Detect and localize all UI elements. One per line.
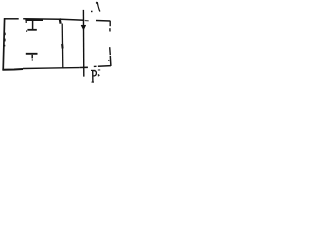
label P top serif bbox=[91, 69, 95, 71]
enclosure box top edge dash 1 bbox=[4, 18, 19, 20]
enclosure box top edge faint dash bbox=[85, 20, 89, 22]
electrode symbol 2 dot bbox=[32, 59, 33, 60]
bottom edge right dashes bbox=[94, 65, 97, 67]
lead wire bbox=[82, 10, 84, 77]
label P stem bbox=[92, 71, 94, 83]
left edge bump 2 bbox=[4, 39, 6, 42]
electrode symbol 1 bottom-left tail bbox=[26, 30, 28, 31]
electrode symbol 1 bottom bar bbox=[27, 29, 36, 31]
left edge bump 1 bbox=[4, 33, 6, 36]
mark right of P bbox=[98, 74, 99, 76]
inner divider line top stub (thick) bbox=[59, 18, 62, 23]
left edge bump 3 bbox=[4, 45, 6, 47]
stray dash below bottom edge bbox=[98, 69, 100, 71]
label lambda left leg dot bbox=[91, 11, 93, 13]
enclosure box right edge (dashed) bbox=[109, 21, 111, 26]
tick left of right edge bbox=[108, 59, 109, 61]
electrode symbol 2 (T-shape) bar bbox=[26, 53, 38, 55]
enclosure box left edge bbox=[3, 18, 4, 70]
electrode symbol 2 stem bbox=[31, 55, 33, 59]
label P bottom serif bbox=[92, 81, 95, 83]
inner divider line bbox=[61, 24, 64, 68]
arrowhead on wire (pointing down) bbox=[81, 25, 86, 30]
electrode symbol 1 left serif bbox=[25, 21, 27, 23]
label lambda main stroke bbox=[96, 2, 101, 12]
enclosure box top edge main segment bbox=[23, 19, 84, 21]
inner divider thick blob bbox=[61, 44, 64, 49]
label P bowl bbox=[93, 71, 96, 76]
enclosure box bottom edge bbox=[2, 68, 23, 71]
enclosure box top edge right dash bbox=[96, 20, 110, 23]
electrode symbol 1 (I-shape) top bar bbox=[25, 19, 43, 21]
electrode symbol 1 stem bbox=[32, 21, 34, 29]
bottom edge tick at wire crossing bbox=[80, 66, 88, 68]
